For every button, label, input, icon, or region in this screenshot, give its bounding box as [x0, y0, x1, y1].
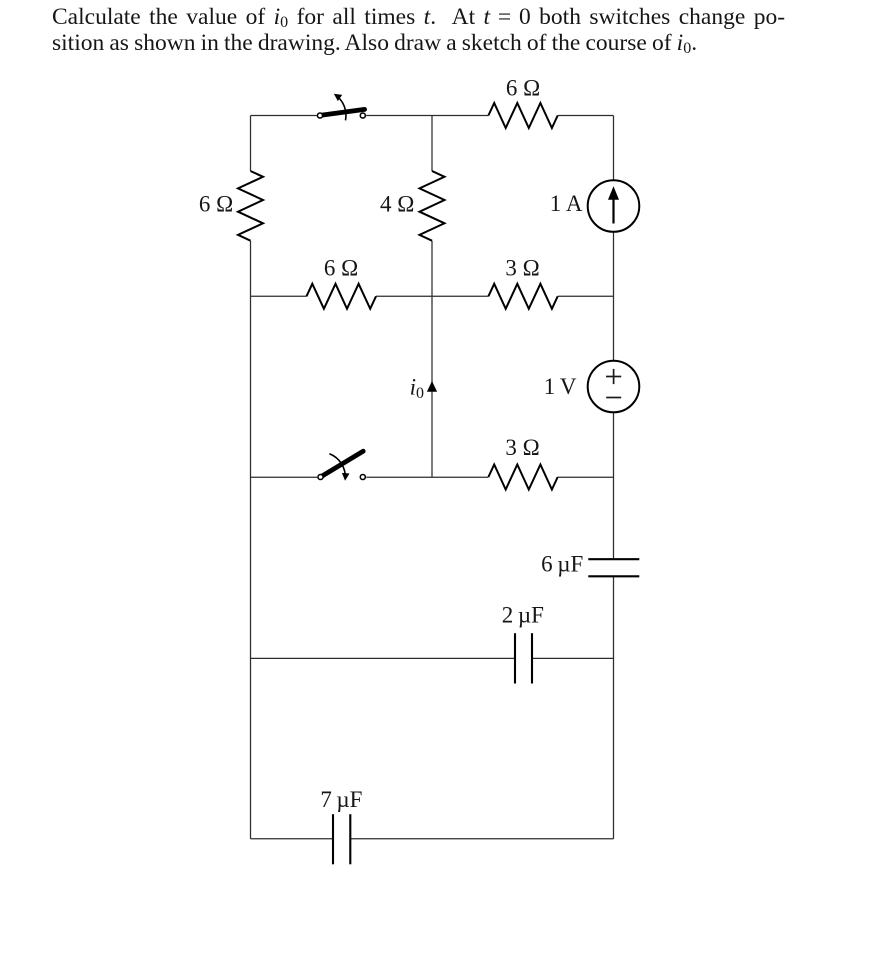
- current source 1A arrow: [608, 186, 619, 223]
- wire: row2 left rail to 6ohm: [251, 295, 307, 297]
- wire: row3 left rail to switch S2: [251, 476, 318, 478]
- voltage source plus sign: [606, 369, 621, 384]
- resistor 6 ohm (left rail, vertical): [238, 171, 263, 241]
- switch S1 lever bar (closed, top wire): [321, 109, 365, 115]
- wire: right rail source to capacitor: [613, 412, 615, 559]
- svg-text:i0: i0: [410, 375, 424, 403]
- capacitor 6uF plates: [588, 559, 639, 576]
- wire: right rail top segment: [613, 116, 615, 181]
- switch S2 right terminal: [360, 474, 365, 479]
- svg-text:6 Ω: 6 Ω: [506, 76, 540, 101]
- resistor 6 ohm (top branch): [488, 103, 557, 128]
- svg-text:7 µF: 7 µF: [320, 787, 362, 812]
- voltage source minus sign: [606, 397, 621, 399]
- wire: row2 between resistors: [376, 295, 488, 297]
- svg-text:6 Ω: 6 Ω: [324, 255, 358, 280]
- wire: row4 2uF to right rail: [532, 657, 614, 659]
- problem statement line 2: [52, 32, 697, 57]
- svg-text:1 A: 1 A: [550, 191, 583, 216]
- svg-text:4 Ω: 4 Ω: [380, 192, 414, 217]
- resistor 3 ohm (row3): [488, 465, 557, 490]
- wire: row2 resistor to right rail: [558, 295, 614, 297]
- svg-text:6 Ω: 6 Ω: [199, 192, 233, 217]
- svg-text:1 V: 1 V: [544, 374, 577, 399]
- switch S2 motion arrow: [329, 454, 349, 481]
- resistor 4 ohm (middle rail, vertical): [420, 171, 445, 241]
- current source 1A circle: [588, 180, 640, 232]
- wire: right rail between sources: [613, 232, 615, 361]
- svg-text:3 Ω: 3 Ω: [505, 435, 539, 460]
- wire: left rail top segment: [250, 116, 252, 172]
- switch S1 motion arrow: [334, 94, 346, 121]
- switch S2 left terminal: [318, 474, 323, 479]
- wire: row3 resistor to right rail: [558, 476, 614, 478]
- wire: middle rail top segment: [431, 116, 433, 172]
- switch S2 lever bar (open, row3): [321, 451, 363, 477]
- resistor 3 ohm (row2 right): [488, 284, 557, 309]
- wire: right rail bottom segment: [613, 576, 615, 839]
- capacitor 7uF plates: [333, 814, 350, 864]
- svg-text:6 µF: 6 µF: [541, 552, 583, 577]
- wire: bottom wire left rail to 7uF: [251, 838, 334, 840]
- wire: middle rail lower segment: [431, 241, 433, 478]
- wire: top wire left of switch S1: [251, 115, 317, 117]
- wire: top wire switch to resistor: [366, 115, 488, 117]
- svg-text:2 µF: 2 µF: [502, 603, 544, 628]
- switch S1 left terminal: [317, 113, 322, 118]
- capacitor 2uF plates: [515, 633, 532, 683]
- current i0 arrowhead on middle rail: [427, 381, 437, 392]
- problem statement line 1: [52, 6, 785, 31]
- wire: bottom wire 7uF to right rail: [350, 838, 613, 840]
- switch S1 right terminal: [360, 113, 365, 118]
- wire: left rail lower segment: [250, 241, 252, 839]
- voltage source 1V circle: [588, 361, 640, 413]
- wire: row4 left rail to 2uF: [251, 657, 516, 659]
- svg-text:3 Ω: 3 Ω: [505, 255, 539, 280]
- wire: row3 switch to resistor: [366, 476, 488, 478]
- wire: top wire resistor to right rail: [558, 115, 614, 117]
- resistor 6 ohm (row2 left): [307, 284, 377, 309]
